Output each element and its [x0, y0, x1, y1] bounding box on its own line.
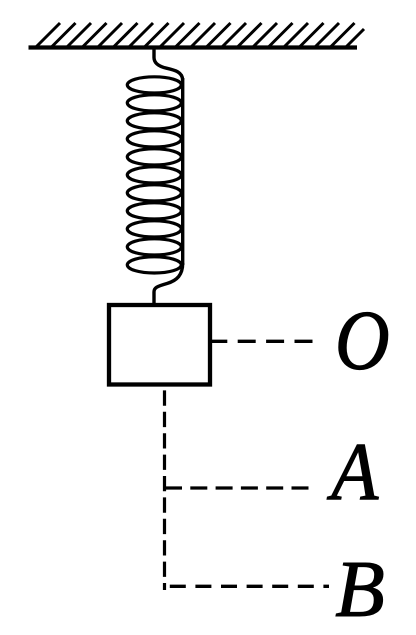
block (mass) — [109, 305, 210, 385]
svg-text:A: A — [326, 427, 378, 518]
dashed line to B — [170, 585, 329, 588]
spring coil 3 — [127, 113, 181, 129]
spring back wire — [181, 78, 184, 265]
dashed line to A — [165, 486, 309, 489]
spring coil 10 — [127, 239, 181, 255]
spring bottom lead wire — [154, 263, 183, 306]
spring coil 11 — [127, 257, 181, 273]
svg-text:B: B — [335, 544, 384, 634]
dashed line to O — [209, 340, 313, 343]
spring coil 8 — [127, 203, 181, 219]
spring coil 4 — [127, 131, 181, 147]
spring coil 2 — [127, 95, 181, 111]
spring top lead wire — [154, 48, 183, 81]
ceiling hatching — [36, 23, 364, 47]
spring coil 6 — [127, 167, 181, 183]
spring coil 1 — [127, 77, 181, 93]
vertical dashed line from block — [163, 390, 166, 590]
spring coil 7 — [127, 185, 181, 201]
spring coil 5 — [127, 149, 181, 165]
svg-text:O: O — [335, 295, 390, 388]
ceiling line — [29, 45, 358, 49]
spring coil 9 — [127, 221, 181, 237]
